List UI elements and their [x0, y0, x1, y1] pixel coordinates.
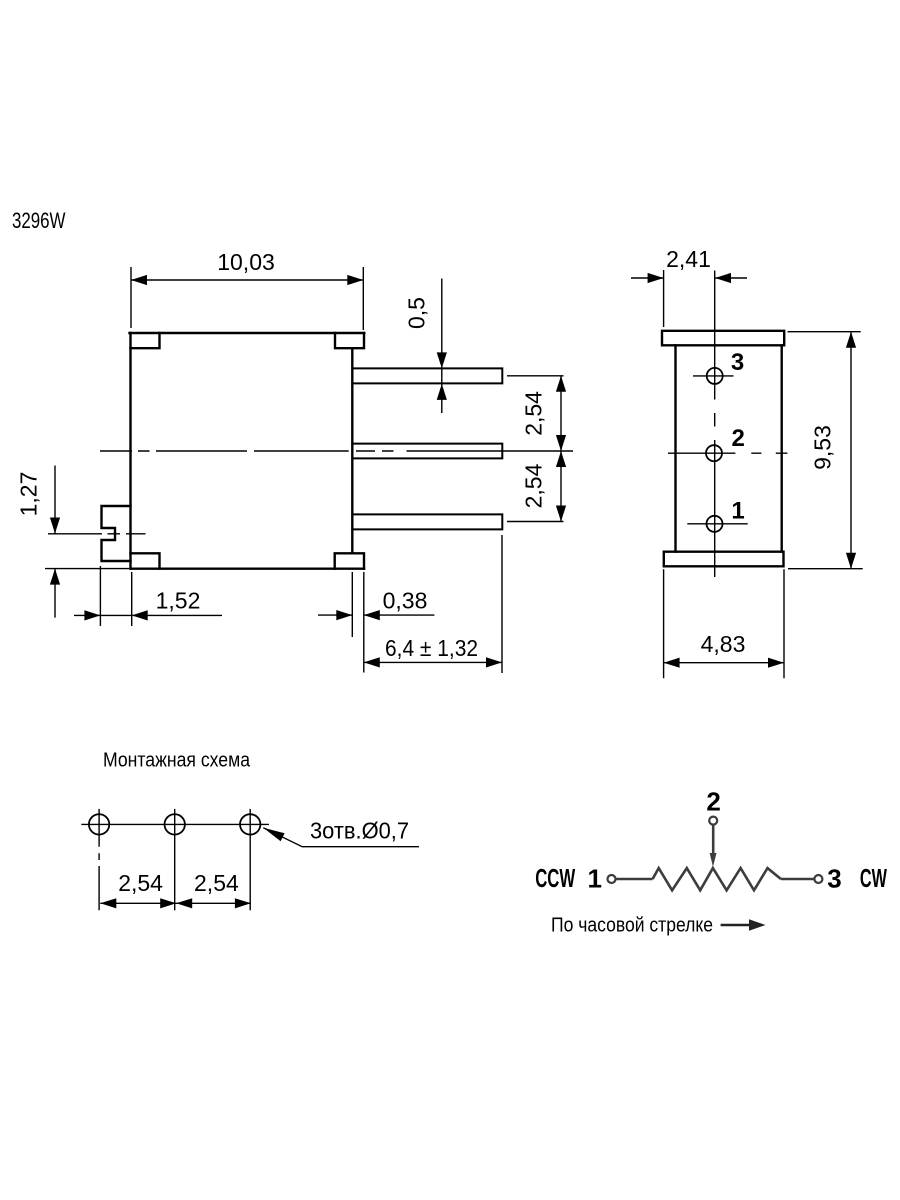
svg-text:9,53: 9,53	[810, 425, 836, 470]
mounting hole C	[240, 814, 260, 834]
leader 3отв.Ø0,7	[263, 818, 419, 847]
svg-text:1,52: 1,52	[156, 588, 201, 614]
clockwise arrow	[721, 924, 750, 927]
svg-text:2,54: 2,54	[194, 870, 239, 896]
svg-text:6,4 ± 1,32: 6,4 ± 1,32	[385, 635, 478, 661]
svg-text:По часовой стрелке: По часовой стрелке	[551, 915, 713, 937]
mounting holes center line	[81, 823, 269, 825]
hole 2	[706, 445, 722, 461]
screw slot center line	[48, 533, 146, 535]
mounting dimension 2,54 / 2,54	[100, 870, 251, 908]
dimension 1,52	[74, 566, 222, 626]
dimension 4,83	[664, 569, 784, 678]
dimension 1,27	[16, 466, 130, 618]
svg-text:1: 1	[731, 497, 744, 524]
front view: trimmer body outline	[130, 333, 365, 569]
schematic: right lead wire	[781, 878, 814, 881]
svg-text:1: 1	[587, 864, 601, 894]
schematic: wiper arrowhead	[710, 853, 717, 867]
svg-text:CCW: CCW	[535, 863, 575, 893]
svg-text:3: 3	[731, 349, 744, 376]
svg-text:3: 3	[827, 864, 841, 894]
schematic: terminal 1 circle	[608, 875, 616, 883]
svg-text:0,5: 0,5	[404, 297, 430, 329]
schematic: terminal 3 circle	[814, 875, 822, 883]
mounting hole A	[89, 814, 109, 834]
svg-text:0,38: 0,38	[383, 588, 428, 614]
dimension 2,41	[631, 246, 747, 327]
svg-text:4,83: 4,83	[701, 631, 746, 657]
pin 1 (top lead)	[352, 368, 502, 383]
side view: body sides	[676, 345, 782, 551]
svg-text:2,41: 2,41	[666, 246, 711, 272]
svg-text:2,54: 2,54	[521, 463, 547, 508]
svg-text:10,03: 10,03	[217, 249, 275, 275]
dimension 10,03	[131, 249, 363, 330]
side view: top flange	[662, 331, 784, 346]
dimension 2,54 (pin1-pin2) and 2,54 (pin2-pin3)	[507, 376, 566, 522]
svg-text:2: 2	[706, 786, 720, 816]
adjustment screw protrusion with slot	[102, 506, 131, 561]
schematic: left lead wire	[616, 878, 653, 881]
svg-text:3296W: 3296W	[12, 208, 66, 233]
svg-text:Монтажная схема: Монтажная схема	[103, 750, 251, 772]
dimension 9,53	[788, 332, 863, 569]
pin 3 (bottom lead)	[352, 514, 502, 529]
side view: bottom flange	[664, 552, 784, 567]
hole 3	[707, 368, 723, 384]
mounting hole B	[165, 814, 185, 834]
schematic: resistor zigzag	[653, 868, 781, 890]
svg-text:CW: CW	[860, 863, 887, 893]
pin 2 (middle lead)	[352, 444, 502, 459]
dimension 6,4 ± 1,32	[364, 535, 502, 673]
svg-text:3отв.Ø0,7: 3отв.Ø0,7	[310, 818, 409, 844]
side view vertical center line	[714, 271, 716, 578]
schematic: wiper line	[712, 825, 715, 854]
hole 1	[707, 516, 723, 532]
schematic: terminal 2 circle	[709, 817, 717, 825]
dimension 0,5	[404, 279, 447, 414]
svg-text:2,54: 2,54	[118, 870, 163, 896]
svg-text:2: 2	[732, 425, 745, 452]
svg-text:1,27: 1,27	[16, 472, 42, 517]
svg-text:2,54: 2,54	[521, 391, 547, 436]
dimension 0,38	[318, 572, 434, 673]
main horizontal center line	[100, 450, 573, 452]
